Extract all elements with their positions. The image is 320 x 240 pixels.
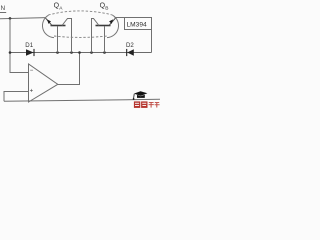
- node junction diode row left: [9, 51, 12, 54]
- package dashed line top: [48, 11, 112, 15]
- wire bottom rail: [4, 99, 160, 101]
- wire left vertical down to op-amp inverting input: [10, 18, 29, 72]
- svg-text:IN: IN: [0, 5, 5, 12]
- envelope arc: [107, 15, 119, 37]
- node junction QA collector: [70, 51, 73, 54]
- diode D1: [25, 42, 34, 56]
- node junction top-left: [9, 17, 12, 20]
- package dashed line bottom: [54, 36, 107, 37]
- base bar: [96, 25, 111, 27]
- diode D2: [126, 42, 134, 56]
- envelope arc: [42, 15, 54, 37]
- watermark graduation cap icon: [133, 91, 148, 100]
- transistor QB: [92, 15, 119, 52]
- node junction output feedback: [78, 51, 81, 54]
- wire top rail from IN to QA emitter: [0, 18, 46, 19]
- collector hook down: [62, 19, 72, 53]
- node junction QA base: [56, 51, 59, 54]
- emitter with arrow: [45, 18, 52, 26]
- box LM394: [125, 18, 152, 30]
- node IN: [0, 5, 6, 12]
- wire QB emitter to right rail: [115, 18, 152, 53]
- svg-text:D1: D1: [25, 42, 33, 49]
- svg-text:B: B: [105, 5, 108, 11]
- base lead down: [104, 26, 106, 53]
- watermark red text: [134, 101, 160, 108]
- label QB: [100, 3, 109, 12]
- emitter with arrow: [109, 18, 116, 26]
- wire diode row D1 to D2: [10, 52, 152, 54]
- svg-text:+: +: [30, 89, 34, 95]
- wire op-amp output up to summing node: [58, 53, 80, 85]
- svg-text:LM394: LM394: [127, 22, 147, 29]
- base bar: [51, 25, 66, 27]
- collector hook down: [92, 19, 100, 53]
- op-amp U1: [29, 64, 58, 102]
- svg-text:D2: D2: [126, 42, 134, 49]
- svg-text:−: −: [30, 68, 34, 74]
- node junction QB base: [103, 51, 106, 54]
- wire non-inverting input to bottom rail: [4, 92, 29, 102]
- node junction QB collector: [90, 51, 93, 54]
- transistor QA: [42, 15, 71, 52]
- base lead down: [57, 26, 59, 53]
- label QA: [54, 3, 64, 12]
